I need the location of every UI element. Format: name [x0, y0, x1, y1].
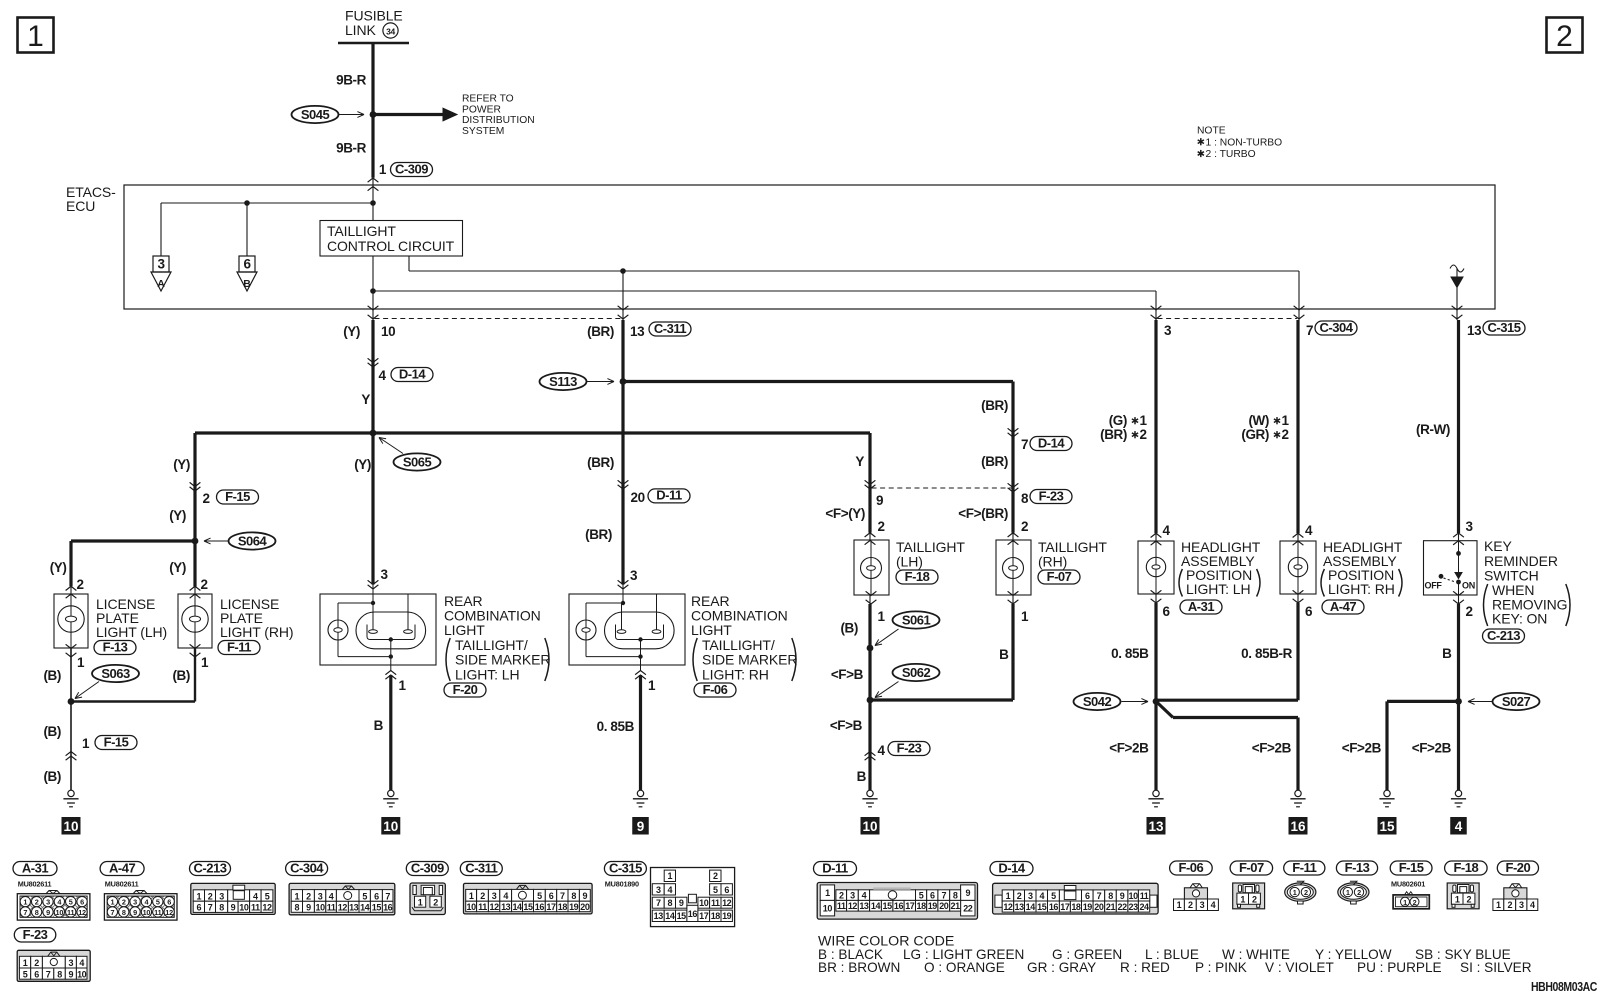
svg-text:(Y): (Y) — [169, 508, 186, 523]
svg-text:6: 6 — [724, 885, 729, 895]
svg-text:<F>2B: <F>2B — [1109, 741, 1149, 756]
svg-text:<F>(Y): <F>(Y) — [825, 506, 865, 521]
svg-text:LINK: LINK — [345, 22, 376, 38]
svg-text:12: 12 — [338, 903, 348, 913]
svg-text:1: 1 — [1293, 888, 1297, 897]
svg-text:9: 9 — [46, 908, 50, 917]
svg-text:LIGHT: RH: LIGHT: RH — [702, 667, 769, 683]
svg-text:F-06: F-06 — [703, 682, 728, 697]
svg-text:3: 3 — [492, 891, 497, 901]
svg-text:2: 2 — [1282, 427, 1289, 442]
svg-text:13: 13 — [1467, 323, 1482, 338]
svg-text:12: 12 — [489, 902, 499, 912]
svg-text:C-311: C-311 — [465, 860, 497, 875]
svg-text:CONTROL CIRCUIT: CONTROL CIRCUIT — [327, 238, 455, 254]
svg-text:1: 1 — [23, 958, 28, 968]
svg-text:(BR): (BR) — [585, 527, 612, 542]
svg-text:11: 11 — [711, 898, 720, 908]
svg-text:<F>2B: <F>2B — [1252, 741, 1292, 756]
svg-text:11: 11 — [67, 908, 74, 917]
svg-text:17: 17 — [546, 902, 556, 912]
svg-text:18: 18 — [916, 901, 926, 911]
svg-text:8: 8 — [1108, 891, 1113, 901]
svg-text:(B): (B) — [172, 668, 190, 683]
svg-text:SI : SILVER: SI : SILVER — [1460, 960, 1532, 975]
svg-text:7: 7 — [560, 891, 565, 901]
svg-text:LIGHT (RH): LIGHT (RH) — [220, 624, 293, 640]
svg-text:10: 10 — [55, 908, 63, 917]
svg-text:S065: S065 — [403, 455, 432, 470]
svg-text:C-213: C-213 — [1487, 628, 1520, 643]
svg-text:0. 85B: 0. 85B — [597, 719, 635, 734]
svg-text:1: 1 — [1021, 609, 1029, 624]
svg-text:(G): (G) — [1109, 413, 1127, 428]
svg-text:F-18: F-18 — [1453, 860, 1478, 875]
svg-text:20: 20 — [631, 490, 645, 505]
svg-text:<F>B: <F>B — [831, 667, 864, 682]
svg-text:(B): (B) — [43, 724, 61, 739]
svg-text:11: 11 — [1140, 891, 1149, 901]
svg-text:5: 5 — [265, 891, 270, 901]
svg-text:2: 2 — [1140, 427, 1147, 442]
svg-text:(Y): (Y) — [50, 560, 67, 575]
svg-text:1: 1 — [110, 898, 114, 907]
svg-text:1: 1 — [418, 897, 423, 907]
svg-text:S045: S045 — [301, 107, 330, 122]
svg-text:7: 7 — [208, 903, 213, 913]
svg-text:Y: Y — [361, 392, 370, 407]
svg-text:15: 15 — [372, 903, 382, 913]
svg-text:1: 1 — [295, 891, 300, 901]
svg-text:9: 9 — [133, 908, 137, 917]
svg-text:5: 5 — [919, 891, 924, 901]
svg-text:V : VIOLET: V : VIOLET — [1265, 960, 1334, 975]
svg-text:HBH08M03AC: HBH08M03AC — [1531, 979, 1598, 994]
svg-text:8: 8 — [35, 908, 39, 917]
svg-text:5: 5 — [713, 885, 718, 895]
svg-text:6: 6 — [1163, 604, 1171, 619]
svg-text:6: 6 — [930, 891, 935, 901]
svg-text:A-47: A-47 — [109, 860, 135, 875]
svg-text:1: 1 — [27, 20, 44, 53]
svg-text:7: 7 — [941, 891, 946, 901]
svg-text:10: 10 — [239, 903, 249, 913]
svg-text:1: 1 — [1455, 894, 1460, 904]
svg-text:4: 4 — [878, 743, 886, 758]
svg-text:4: 4 — [329, 891, 334, 901]
svg-text:2: 2 — [203, 491, 210, 506]
svg-text:2 : TURBO: 2 : TURBO — [1206, 149, 1256, 160]
svg-text:7: 7 — [1021, 437, 1028, 452]
svg-text:4: 4 — [253, 891, 258, 901]
svg-text:4: 4 — [1305, 523, 1313, 538]
svg-text:1: 1 — [201, 655, 209, 670]
svg-text:PU : PURPLE: PU : PURPLE — [1357, 960, 1442, 975]
svg-text:F-15: F-15 — [225, 489, 250, 504]
svg-text:C-315: C-315 — [1488, 320, 1521, 335]
svg-text:15: 15 — [677, 911, 687, 921]
svg-text:Y: Y — [855, 454, 864, 469]
svg-text:2: 2 — [1556, 20, 1573, 53]
svg-text:13: 13 — [501, 902, 511, 912]
svg-text:(RH): (RH) — [1038, 554, 1067, 570]
svg-text:S113: S113 — [549, 374, 577, 389]
svg-text:20: 20 — [939, 901, 949, 911]
svg-text:1: 1 — [23, 898, 27, 907]
svg-text:2: 2 — [77, 577, 84, 592]
svg-text:3: 3 — [157, 257, 165, 272]
svg-text:15: 15 — [883, 901, 893, 911]
svg-text:C-315: C-315 — [609, 860, 642, 875]
svg-text:(Y): (Y) — [354, 457, 371, 472]
svg-text:3: 3 — [1200, 900, 1205, 910]
svg-text:2: 2 — [1188, 900, 1193, 910]
svg-text:8: 8 — [122, 908, 126, 917]
svg-text:LIGHT (LH): LIGHT (LH) — [96, 624, 167, 640]
svg-text:(LH): (LH) — [896, 554, 923, 570]
svg-text:DISTRIBUTION: DISTRIBUTION — [462, 115, 535, 126]
svg-text:4: 4 — [79, 958, 84, 968]
svg-text:(BR): (BR) — [981, 454, 1008, 469]
svg-text:4: 4 — [1530, 900, 1535, 910]
svg-text:1: 1 — [1403, 898, 1407, 907]
svg-text:C-309: C-309 — [411, 860, 444, 875]
svg-text:7: 7 — [1097, 891, 1102, 901]
svg-text:2: 2 — [433, 897, 438, 907]
svg-text:9: 9 — [637, 819, 645, 834]
svg-text:F-23: F-23 — [897, 740, 922, 755]
svg-text:6: 6 — [80, 898, 84, 907]
svg-text:3: 3 — [69, 958, 74, 968]
svg-text:<F>2B: <F>2B — [1342, 741, 1382, 756]
svg-text:9: 9 — [1120, 891, 1125, 901]
svg-text:3: 3 — [1028, 891, 1033, 901]
svg-text:S042: S042 — [1083, 694, 1112, 709]
svg-text:D-11: D-11 — [822, 860, 848, 875]
svg-text:8: 8 — [953, 891, 958, 901]
svg-text:(W): (W) — [1248, 413, 1269, 428]
svg-text:D-14: D-14 — [1038, 435, 1065, 450]
svg-text:4: 4 — [503, 891, 508, 901]
svg-text:5: 5 — [537, 891, 542, 901]
svg-text:22: 22 — [963, 904, 973, 914]
svg-text:9: 9 — [69, 969, 74, 979]
svg-text:1: 1 — [668, 871, 673, 881]
svg-text:6: 6 — [197, 903, 202, 913]
svg-text:1: 1 — [1496, 900, 1501, 910]
svg-text:1: 1 — [1240, 894, 1245, 904]
svg-text:B: B — [374, 718, 384, 733]
svg-text:3: 3 — [1519, 900, 1524, 910]
svg-text:21: 21 — [1106, 902, 1116, 912]
svg-text:8: 8 — [1021, 491, 1029, 506]
svg-text:2: 2 — [878, 519, 885, 534]
svg-text:F-15: F-15 — [1399, 860, 1424, 875]
svg-text:4: 4 — [379, 368, 387, 383]
svg-text:7: 7 — [23, 908, 27, 917]
svg-text:9: 9 — [876, 493, 883, 508]
svg-text:5: 5 — [156, 898, 160, 907]
svg-text:POWER: POWER — [462, 104, 501, 115]
svg-text:10: 10 — [63, 819, 78, 834]
svg-text:(Y): (Y) — [169, 560, 186, 575]
svg-text:LIGHT: LIGHT — [691, 622, 732, 638]
svg-text:10: 10 — [383, 819, 398, 834]
svg-text:<F>2B: <F>2B — [1412, 741, 1452, 756]
svg-text:18: 18 — [558, 902, 568, 912]
svg-text:7: 7 — [110, 908, 114, 917]
svg-text:0. 85B: 0. 85B — [1111, 646, 1149, 661]
svg-text:(BR): (BR) — [587, 324, 614, 339]
svg-text:ECU: ECU — [66, 198, 95, 214]
svg-text:O : ORANGE: O : ORANGE — [924, 960, 1005, 975]
svg-text:8: 8 — [295, 903, 300, 913]
svg-text:(BR): (BR) — [587, 455, 614, 470]
svg-text:C-311: C-311 — [654, 321, 686, 336]
svg-text:12: 12 — [722, 898, 732, 908]
svg-text:4: 4 — [1211, 900, 1216, 910]
svg-text:S062: S062 — [902, 665, 931, 680]
svg-text:S064: S064 — [238, 534, 268, 549]
svg-text:13: 13 — [1148, 819, 1164, 834]
svg-text:1: 1 — [825, 888, 830, 898]
svg-text:MU801890: MU801890 — [605, 880, 639, 889]
svg-text:2: 2 — [1507, 900, 1512, 910]
svg-text:10: 10 — [823, 904, 833, 914]
svg-text:F-13: F-13 — [103, 639, 128, 654]
svg-text:1: 1 — [1140, 413, 1148, 428]
svg-text:16: 16 — [383, 903, 393, 913]
svg-text:2: 2 — [201, 577, 208, 592]
svg-text:REFER TO: REFER TO — [462, 94, 514, 105]
svg-text:2: 2 — [122, 898, 126, 907]
svg-text:1: 1 — [648, 678, 656, 693]
svg-text:14: 14 — [871, 901, 881, 911]
svg-text:KEY: ON: KEY: ON — [1492, 611, 1547, 627]
svg-text:9: 9 — [583, 891, 588, 901]
svg-text:9: 9 — [965, 888, 970, 898]
svg-text:12: 12 — [165, 908, 173, 917]
svg-text:BR : BROWN: BR : BROWN — [818, 960, 900, 975]
svg-text:12: 12 — [78, 908, 86, 917]
svg-text:23: 23 — [1129, 902, 1139, 912]
svg-text:5: 5 — [362, 891, 367, 901]
svg-text:6: 6 — [374, 891, 379, 901]
svg-text:KEY: KEY — [1484, 538, 1512, 554]
svg-text:5: 5 — [69, 898, 73, 907]
svg-text:15: 15 — [1037, 902, 1047, 912]
svg-text:2: 2 — [1021, 519, 1028, 534]
svg-text:S027: S027 — [1502, 694, 1531, 709]
svg-text:1: 1 — [1346, 888, 1350, 897]
svg-text:7: 7 — [1306, 323, 1313, 338]
svg-text:F-23: F-23 — [23, 927, 48, 942]
svg-text:1: 1 — [77, 655, 85, 670]
svg-text:9B-R: 9B-R — [336, 73, 367, 88]
svg-text:D-14: D-14 — [399, 366, 426, 381]
svg-text:11: 11 — [478, 902, 487, 912]
svg-text:4: 4 — [1455, 819, 1463, 834]
svg-text:15: 15 — [1379, 819, 1395, 834]
svg-text:10: 10 — [699, 898, 709, 908]
svg-text:S063: S063 — [101, 666, 130, 681]
svg-text:3: 3 — [850, 891, 855, 901]
svg-text:3: 3 — [656, 885, 661, 895]
svg-text:22: 22 — [1117, 902, 1127, 912]
svg-text:4: 4 — [668, 885, 673, 895]
svg-text:10: 10 — [1129, 891, 1139, 901]
svg-text:20: 20 — [580, 902, 590, 912]
svg-text:9: 9 — [679, 898, 684, 908]
svg-text:3: 3 — [219, 891, 224, 901]
svg-text:7: 7 — [656, 898, 661, 908]
svg-text:13: 13 — [349, 903, 359, 913]
svg-text:4: 4 — [1163, 523, 1171, 538]
svg-text:SIDE MARKER: SIDE MARKER — [455, 652, 550, 668]
svg-text:LIGHT: LIGHT — [444, 622, 485, 638]
svg-text:21: 21 — [951, 901, 961, 911]
svg-text:F-07: F-07 — [1047, 569, 1072, 584]
svg-text:(B): (B) — [43, 668, 61, 683]
svg-text:D-11: D-11 — [656, 488, 682, 503]
svg-text:18: 18 — [1071, 902, 1081, 912]
svg-text:2: 2 — [208, 891, 213, 901]
svg-text:F-20: F-20 — [453, 682, 478, 697]
svg-text:16: 16 — [688, 909, 698, 919]
svg-text:2: 2 — [1252, 894, 1257, 904]
svg-text:2: 2 — [713, 871, 718, 881]
svg-text:2: 2 — [34, 958, 39, 968]
svg-text:GR : GRAY: GR : GRAY — [1027, 960, 1096, 975]
svg-text:4: 4 — [862, 891, 867, 901]
svg-text:15: 15 — [523, 902, 533, 912]
svg-text:MU802601: MU802601 — [1391, 880, 1425, 889]
svg-text:16: 16 — [894, 901, 904, 911]
svg-text:12: 12 — [848, 901, 858, 911]
svg-text:3: 3 — [46, 898, 50, 907]
svg-text:13: 13 — [859, 901, 869, 911]
svg-text:A: A — [157, 278, 165, 290]
svg-text:(BR): (BR) — [1100, 427, 1127, 442]
svg-text:0. 85B-R: 0. 85B-R — [1241, 646, 1292, 661]
svg-text:9B-R: 9B-R — [336, 141, 367, 156]
svg-text:OFF: OFF — [1425, 581, 1443, 591]
svg-text:1: 1 — [1282, 413, 1290, 428]
svg-text:A-47: A-47 — [1330, 599, 1356, 614]
svg-text:ON: ON — [1462, 581, 1475, 591]
svg-text:7: 7 — [385, 891, 390, 901]
svg-text:C-213: C-213 — [194, 860, 227, 875]
svg-text:6: 6 — [1305, 604, 1313, 619]
svg-text:3: 3 — [381, 567, 389, 582]
svg-text:10: 10 — [77, 969, 87, 979]
svg-text:8: 8 — [57, 969, 62, 979]
svg-text:NOTE: NOTE — [1197, 126, 1226, 137]
svg-text:8: 8 — [668, 898, 673, 908]
svg-text:P : PINK: P : PINK — [1195, 960, 1247, 975]
svg-text:17: 17 — [699, 911, 709, 921]
svg-text:16: 16 — [1290, 819, 1306, 834]
svg-text:B: B — [857, 769, 867, 784]
svg-text:11: 11 — [837, 901, 846, 911]
svg-text:1: 1 — [878, 609, 886, 624]
svg-text:10: 10 — [143, 908, 151, 917]
svg-text:F-15: F-15 — [104, 734, 129, 749]
svg-text:C-309: C-309 — [395, 161, 428, 176]
svg-text:3: 3 — [133, 898, 137, 907]
svg-text:1: 1 — [1006, 891, 1011, 901]
svg-text:2: 2 — [35, 898, 39, 907]
svg-text:7: 7 — [46, 969, 51, 979]
svg-text:9: 9 — [231, 903, 236, 913]
svg-text:2: 2 — [1017, 891, 1022, 901]
svg-text:1: 1 — [379, 162, 387, 177]
svg-text:5: 5 — [1051, 891, 1056, 901]
svg-text:S061: S061 — [902, 613, 931, 628]
svg-text:3: 3 — [1466, 519, 1474, 534]
svg-text:18: 18 — [711, 911, 721, 921]
svg-text:13: 13 — [654, 911, 664, 921]
svg-text:6: 6 — [549, 891, 554, 901]
svg-text:(R-W): (R-W) — [1416, 422, 1450, 437]
svg-text:17: 17 — [905, 901, 915, 911]
svg-text:F-23: F-23 — [1039, 488, 1064, 503]
svg-text:11: 11 — [327, 903, 336, 913]
svg-text:R : RED: R : RED — [1120, 960, 1170, 975]
svg-text:24: 24 — [1139, 902, 1149, 912]
svg-text:10: 10 — [315, 903, 325, 913]
svg-text:(B): (B) — [840, 621, 858, 636]
svg-text:6: 6 — [34, 969, 39, 979]
svg-text:SIDE MARKER: SIDE MARKER — [702, 652, 797, 668]
svg-text:17: 17 — [1060, 902, 1070, 912]
svg-text:F-18: F-18 — [905, 569, 930, 584]
svg-text:B: B — [1442, 646, 1452, 661]
svg-text:5: 5 — [23, 969, 28, 979]
svg-text:9: 9 — [306, 903, 311, 913]
svg-text:6: 6 — [167, 898, 171, 907]
svg-text:19: 19 — [928, 901, 938, 911]
svg-text:LIGHT: LH: LIGHT: LH — [455, 667, 519, 683]
svg-text:1 : NON-TURBO: 1 : NON-TURBO — [1206, 137, 1283, 148]
svg-text:TAILLIGHT: TAILLIGHT — [327, 223, 396, 239]
svg-text:A-31: A-31 — [1188, 599, 1214, 614]
svg-text:19: 19 — [569, 902, 579, 912]
svg-text:14: 14 — [360, 903, 370, 913]
svg-text:A-31: A-31 — [22, 860, 48, 875]
svg-text:2: 2 — [1466, 604, 1473, 619]
svg-text:3: 3 — [318, 891, 323, 901]
svg-text:20: 20 — [1094, 902, 1104, 912]
svg-text:B: B — [243, 278, 251, 290]
svg-text:8: 8 — [571, 891, 576, 901]
svg-text:10: 10 — [381, 324, 395, 339]
svg-text:11: 11 — [154, 908, 161, 917]
svg-text:12: 12 — [262, 903, 272, 913]
svg-text:6: 6 — [1085, 891, 1090, 901]
svg-text:LIGHT: RH: LIGHT: RH — [1328, 581, 1395, 597]
svg-text:3: 3 — [1164, 323, 1172, 338]
svg-text:10: 10 — [467, 902, 477, 912]
svg-text:4: 4 — [1039, 891, 1044, 901]
svg-text:MU802611: MU802611 — [18, 880, 52, 889]
svg-text:2: 2 — [839, 891, 844, 901]
svg-text:1: 1 — [82, 736, 90, 751]
svg-text:12: 12 — [1003, 902, 1013, 912]
svg-text:1: 1 — [399, 678, 407, 693]
svg-text:F-06: F-06 — [1179, 860, 1204, 875]
svg-text:8: 8 — [219, 903, 224, 913]
